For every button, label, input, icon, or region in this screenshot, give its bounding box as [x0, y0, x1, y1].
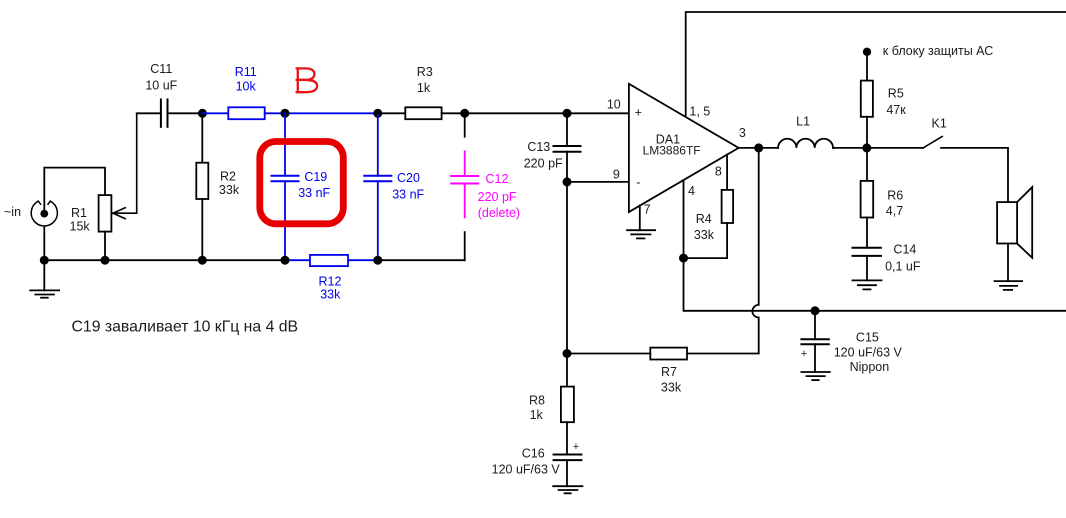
- svg-text:33k: 33k: [320, 288, 341, 302]
- resistor R5: [866, 52, 868, 81]
- node: C11/R11/R2 junction: [198, 109, 207, 118]
- svg-text:-: -: [636, 176, 640, 190]
- capacitor C20 (blue): [364, 113, 391, 260]
- svg-text:R6: R6: [887, 189, 903, 203]
- ground (C14): [853, 280, 882, 289]
- wire: bottom ground rail: [44, 259, 285, 261]
- ground (input): [30, 260, 59, 298]
- node dots on bottom rail: [40, 256, 49, 265]
- svg-text:1, 5: 1, 5: [689, 104, 710, 118]
- wire: pin 1,5 to top rail: [686, 12, 1066, 116]
- svg-text:4,7: 4,7: [886, 204, 903, 218]
- node: feedback junction: [563, 349, 572, 358]
- svg-text:+: +: [801, 348, 807, 360]
- svg-text:R5: R5: [888, 87, 904, 101]
- svg-text:R1: R1: [71, 206, 87, 220]
- svg-text:R3: R3: [417, 65, 433, 79]
- svg-text:C16: C16: [522, 447, 545, 461]
- svg-text:R7: R7: [661, 365, 677, 379]
- svg-text:120 uF/63 V: 120 uF/63 V: [834, 345, 903, 359]
- svg-text:C13: C13: [527, 140, 550, 154]
- svg-text:120 uF/63 V: 120 uF/63 V: [492, 463, 561, 477]
- svg-text:R8: R8: [529, 394, 545, 408]
- svg-text:C19: C19: [304, 170, 327, 184]
- wire: blue top net C19-C20: [285, 112, 378, 114]
- capacitor C19 (blue): [272, 113, 299, 260]
- switch K1: [923, 137, 942, 148]
- svg-text:к блоку защиты АС: к блоку защиты АС: [883, 44, 993, 58]
- node: C20 top: [373, 109, 382, 118]
- annotation letter B (red): [297, 68, 317, 92]
- svg-text:47к: 47к: [886, 103, 906, 117]
- capacitor C12 (magenta, deleted): [464, 113, 466, 136]
- resistor R12 (blue): [310, 255, 348, 266]
- wire: pin 3 output: [739, 147, 779, 149]
- resistor R7: [650, 348, 687, 360]
- svg-text:1k: 1k: [530, 408, 544, 422]
- terminal to protection block: [863, 48, 871, 56]
- svg-text:C11: C11: [150, 62, 172, 76]
- node: R11/C19: [281, 109, 290, 118]
- wire: pot wiper to C11 left node: [113, 113, 137, 218]
- svg-text:33k: 33k: [694, 228, 715, 242]
- wire: L1 to R5/R6 node: [833, 147, 923, 149]
- node: zobel junction: [862, 143, 871, 152]
- wire: pin 7 to ground: [639, 205, 641, 230]
- svg-text:C14: C14: [893, 242, 916, 256]
- node: C13 top: [563, 109, 572, 118]
- node: R3/C12: [460, 109, 469, 118]
- ground (C15): [801, 372, 829, 380]
- svg-text:10 uF: 10 uF: [145, 79, 177, 93]
- resistor R3: [378, 112, 406, 114]
- svg-text:(delete): (delete): [478, 206, 520, 220]
- svg-text:+: +: [573, 441, 579, 453]
- svg-text:LM3886TF: LM3886TF: [643, 143, 701, 157]
- resistor R4: [726, 155, 728, 190]
- svg-text:33 nF: 33 nF: [298, 186, 330, 200]
- node: output pin 3: [754, 143, 763, 152]
- speaker BA: [997, 202, 1017, 243]
- svg-text:1k: 1k: [417, 81, 431, 95]
- svg-text:C19 заваливает 10 кГц на 4 dB: C19 заваливает 10 кГц на 4 dB: [72, 319, 299, 336]
- svg-text:220 pF: 220 pF: [478, 190, 517, 204]
- node: C13 bottom / pin 9: [563, 177, 572, 186]
- svg-text:33k: 33k: [219, 183, 240, 197]
- svg-text:C20: C20: [397, 171, 420, 185]
- resistor R6: [866, 148, 868, 181]
- svg-text:R11: R11: [235, 65, 257, 79]
- svg-text:9: 9: [613, 167, 620, 181]
- ground (speaker): [995, 281, 1023, 290]
- svg-text:~in: ~in: [4, 205, 21, 219]
- capacitor C14: [853, 248, 881, 256]
- svg-text:Nippon: Nippon: [850, 360, 890, 374]
- resistor R1 (potentiometer): [99, 195, 112, 232]
- svg-text:7: 7: [644, 203, 651, 217]
- capacitor C15 (electrolytic): [814, 311, 816, 339]
- resistor R2: [201, 113, 203, 162]
- ground (C16): [553, 486, 582, 493]
- input jack J1: [31, 168, 105, 261]
- svg-text:220 pF: 220 pF: [524, 157, 563, 171]
- svg-text:C12: C12: [486, 172, 509, 186]
- wire: pin 4 down and right rail: [684, 180, 1066, 311]
- svg-text:15k: 15k: [70, 220, 91, 234]
- svg-text:R4: R4: [696, 212, 712, 226]
- svg-text:10: 10: [607, 98, 621, 112]
- wire: pin 9: [567, 181, 629, 183]
- red highlight box around C19: [260, 142, 344, 224]
- svg-text:R2: R2: [220, 170, 236, 184]
- node: C15 tap on rail: [811, 306, 820, 315]
- node: pin4/R4: [679, 254, 688, 263]
- svg-text:8: 8: [715, 165, 722, 179]
- svg-text:C15: C15: [856, 331, 879, 345]
- resistor R8: [566, 354, 568, 387]
- wire: K1 to speaker: [941, 148, 1008, 202]
- wire: feedback from pin 3 with hop over rail: [687, 148, 759, 354]
- resistor R11 (blue): [202, 112, 228, 114]
- svg-text:3: 3: [739, 126, 746, 140]
- svg-text:K1: K1: [932, 116, 947, 130]
- ground (pin 7): [627, 230, 655, 238]
- svg-text:10k: 10k: [236, 80, 257, 94]
- svg-text:33k: 33k: [661, 381, 682, 395]
- svg-text:0,1 uF: 0,1 uF: [885, 260, 921, 274]
- svg-text:33 nF: 33 nF: [392, 188, 424, 202]
- svg-text:L1: L1: [796, 115, 810, 129]
- svg-text:R12: R12: [319, 275, 342, 289]
- op-amp DA1 LM3886TF: [629, 84, 739, 212]
- inductor L1: [778, 139, 833, 148]
- capacitor C11: [137, 112, 161, 114]
- capacitor C13: [554, 113, 581, 353]
- svg-text:4: 4: [688, 184, 695, 198]
- capacitor C16 (electrolytic): [554, 455, 582, 461]
- svg-text:+: +: [635, 106, 642, 120]
